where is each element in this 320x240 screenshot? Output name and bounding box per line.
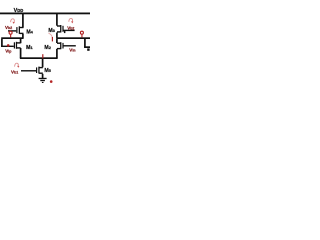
terminal o+ left: [9, 31, 12, 34]
svg-text:Vb2: Vb2: [67, 26, 74, 31]
wire M1 drain up: [20, 39, 22, 43]
svg-text:M4: M4: [26, 29, 33, 35]
svg-text:Vb1: Vb1: [11, 70, 18, 75]
annotation arrow output: [49, 33, 53, 37]
transistor M1: [14, 42, 21, 49]
terminal o- right: [80, 31, 83, 34]
svg-text:Vin: Vin: [69, 48, 75, 53]
wire left output line: [1, 37, 23, 39]
wire tail line: [20, 57, 58, 59]
ground: [39, 78, 47, 83]
annotation dot bottom: [50, 80, 53, 83]
wire M2 source down: [56, 49, 58, 58]
annotation arrow Vb1: [15, 63, 19, 66]
wire left edge down: [1, 39, 3, 47]
wire M2 drain up: [56, 39, 58, 43]
transistor M4: [8, 26, 24, 34]
wire M1 gate lead: [1, 46, 14, 47]
wire M4 source to VDD: [22, 14, 24, 28]
wire M5 source: [42, 74, 44, 78]
wire M4 drain down: [22, 34, 24, 38]
svg-text:M3: M3: [48, 28, 55, 34]
wire to edge: [84, 46, 90, 48]
node Vip dot: [7, 44, 10, 47]
wire right output line: [56, 37, 90, 39]
svg-text:Vip: Vip: [5, 49, 11, 54]
transistor M5: [21, 67, 43, 74]
svg-text:M2: M2: [44, 45, 51, 51]
load stub: [87, 48, 89, 50]
svg-text:Vb2: Vb2: [5, 25, 12, 30]
wire M5 drain: [42, 59, 44, 67]
annotation arrow right Vb2: [69, 18, 73, 21]
wire output right edge down: [84, 39, 86, 48]
VDD rail: [0, 13, 90, 15]
svg-text:M5: M5: [44, 68, 51, 74]
wire M3 source to VDD: [56, 14, 58, 26]
annotation arrow left Vb2: [11, 19, 15, 22]
svg-text:M1: M1: [26, 45, 33, 51]
annotation tick tail: [42, 54, 43, 58]
transistor M2: [57, 42, 76, 49]
wire M1 source down: [20, 48, 22, 58]
transistor M3: [57, 25, 75, 33]
wire M3 drain down: [56, 33, 58, 38]
